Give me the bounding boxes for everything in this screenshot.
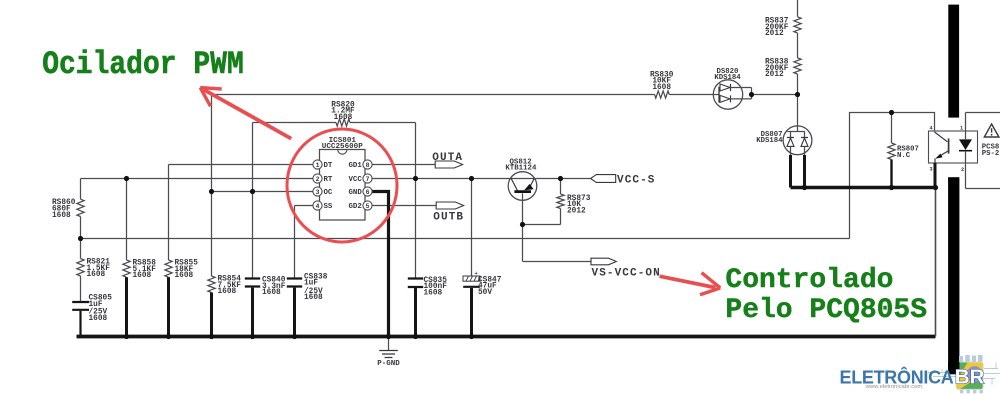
- junction dot 2: [124, 176, 129, 181]
- ground rail P-GND thick: [77, 335, 936, 339]
- resistor RS807: [888, 113, 919, 188]
- thick rail secondary: [791, 186, 936, 190]
- wire B RS820 net: [253, 122, 416, 124]
- op-amp U1 ICS801 UCC25600P PWM controller IC: [313, 137, 372, 220]
- svg-text:KTB1124: KTB1124: [505, 164, 537, 172]
- svg-text:BR: BR: [955, 366, 985, 389]
- resistor RS820: [331, 101, 355, 126]
- svg-text:PS-2: PS-2: [982, 150, 1000, 158]
- resistor RS855: [165, 260, 198, 337]
- junction dot 14: [933, 185, 938, 190]
- svg-text:1608: 1608: [424, 289, 443, 297]
- wire column x294: [294, 206, 296, 278]
- svg-text:OUTB: OUTB: [433, 211, 464, 223]
- capacitor CS838: [287, 273, 328, 336]
- resistor RS860: [52, 179, 84, 239]
- svg-text:6: 6: [366, 189, 370, 196]
- svg-text:8: 8: [366, 162, 370, 169]
- svg-text:1608: 1608: [304, 294, 323, 302]
- svg-text:1608: 1608: [262, 289, 281, 297]
- svg-text:SS: SS: [324, 203, 333, 211]
- junction dot 7: [558, 176, 563, 181]
- svg-text:KDS184: KDS184: [756, 137, 783, 145]
- node OUTB: [433, 202, 464, 223]
- wire VS long net: [81, 238, 850, 240]
- logo chip graphic: [928, 355, 1000, 393]
- junction dot 22: [469, 334, 474, 339]
- svg-text:2012: 2012: [567, 207, 586, 215]
- diode DS807 KDS184 dual: [756, 126, 812, 188]
- warning symbol: [984, 124, 999, 137]
- wire pin1 row: [169, 164, 314, 166]
- wire QS812 base / RS873 / VS-VCC-ON: [523, 179, 592, 262]
- junction dot 4: [250, 189, 255, 194]
- ground P-GND: [377, 338, 400, 368]
- junction dot 5: [413, 176, 418, 181]
- node OUTA: [432, 152, 463, 168]
- junction dot 21: [413, 334, 418, 339]
- svg-text:1608: 1608: [652, 84, 671, 92]
- resistor RS873: [557, 194, 591, 215]
- svg-text:50V: 50V: [478, 289, 492, 297]
- wire column x471: [471, 179, 473, 277]
- junction dot 20: [386, 334, 391, 339]
- svg-text:1: 1: [960, 125, 963, 131]
- svg-text:2: 2: [316, 176, 320, 183]
- red arrow to Ocilador PWM: [200, 88, 291, 139]
- logo text BR: [955, 366, 985, 389]
- svg-text:UCC25600P: UCC25600P: [322, 143, 363, 151]
- junction dot 12: [889, 110, 894, 115]
- svg-text:Controlado: Controlado: [725, 265, 893, 296]
- resistor RS838: [765, 58, 801, 79]
- svg-text:N.C: N.C: [897, 152, 911, 160]
- svg-text:VCC: VCC: [348, 176, 362, 184]
- junction dot 18: [250, 334, 255, 339]
- junction dot 6: [469, 176, 474, 181]
- wire pin7 to VCC-S: [372, 178, 591, 180]
- logo url: [865, 384, 923, 390]
- label PCS801: [982, 143, 1000, 158]
- svg-text:www.eletronicabr.com: www.eletronicabr.com: [865, 384, 923, 390]
- svg-text:3: 3: [316, 189, 320, 196]
- diode DS820 KDS184 dual: [713, 68, 751, 109]
- label Ocilador PWM: [42, 47, 244, 83]
- capacitor CS847 electrolytic: [463, 270, 502, 337]
- junction dot 15: [124, 334, 129, 339]
- node VS-VCC-ON: [591, 258, 661, 279]
- junction dot 16: [166, 334, 171, 339]
- capacitor CS840: [245, 277, 286, 337]
- diode PCS801 LED side: [959, 113, 972, 189]
- svg-text:7: 7: [366, 176, 370, 183]
- wire column x252: [252, 123, 254, 278]
- resistor RS854: [208, 276, 241, 337]
- junction dot 9: [749, 92, 754, 97]
- wire pin6 thick to ground rail: [372, 192, 389, 337]
- svg-text:1608: 1608: [52, 212, 71, 220]
- node VCC-S: [591, 175, 656, 187]
- junction dot 10: [795, 92, 800, 97]
- svg-text:GD2: GD2: [348, 203, 361, 211]
- svg-text:Pelo PCQ805S: Pelo PCQ805S: [725, 295, 927, 326]
- svg-text:4: 4: [929, 125, 932, 131]
- page bar top: [948, 5, 959, 118]
- resistor RS858: [123, 260, 156, 337]
- resistor RS830: [650, 71, 674, 98]
- wire pin5 to OUTB: [372, 205, 436, 207]
- logo text ELETRONICA: [840, 366, 954, 387]
- svg-text:GD1: GD1: [348, 162, 362, 170]
- wire optocoupler right bottom: [966, 188, 1000, 190]
- wire column x415: [415, 123, 417, 278]
- svg-text:4: 4: [316, 203, 320, 210]
- svg-text:1608: 1608: [334, 114, 353, 122]
- svg-text:RT: RT: [324, 176, 333, 184]
- wire pin4 row: [295, 205, 314, 207]
- optocoupler PCS801 phototransistor side: [929, 125, 978, 187]
- svg-text:Ocilador PWM: Ocilador PWM: [42, 47, 244, 83]
- resistor RS821: [77, 239, 110, 280]
- wire rail riser x935: [935, 188, 937, 337]
- svg-text:KDS184: KDS184: [714, 74, 741, 82]
- junction dot 1: [78, 236, 83, 241]
- transistor QS812 KTB1124: [505, 158, 537, 200]
- svg-text:1608: 1608: [89, 315, 108, 323]
- wire A top horizontal net: [212, 94, 798, 96]
- wire pin2 row: [81, 178, 314, 180]
- svg-text:DT: DT: [324, 162, 333, 170]
- junction dot 11: [802, 185, 807, 190]
- junction dot 3: [209, 189, 214, 194]
- svg-text:OUTA: OUTA: [432, 152, 463, 164]
- wire column x168: [168, 165, 170, 261]
- svg-text:2012: 2012: [765, 71, 784, 79]
- junction dot 17: [209, 334, 214, 339]
- junction dot 13: [889, 185, 894, 190]
- svg-text:2012: 2012: [765, 30, 784, 38]
- red circle around IC: [287, 129, 397, 242]
- svg-text:2: 2: [961, 167, 964, 173]
- svg-text:5: 5: [366, 203, 370, 210]
- page bar bottom: [948, 177, 959, 374]
- wire column x211: [211, 95, 213, 277]
- svg-text:3: 3: [929, 167, 932, 173]
- capacitor CS835: [408, 277, 447, 337]
- wire right riser to opto pin4: [850, 113, 935, 239]
- wire RS837/RS838 column: [797, 0, 799, 126]
- label Controlado Pelo PCQ805S: [725, 265, 927, 326]
- svg-text:VCC-S: VCC-S: [617, 175, 656, 187]
- junction dot 19: [292, 334, 297, 339]
- svg-text:1uF: 1uF: [304, 280, 318, 288]
- svg-text:GND: GND: [348, 189, 362, 197]
- svg-text:VS-VCC-ON: VS-VCC-ON: [592, 268, 661, 280]
- svg-text:1608: 1608: [133, 272, 152, 280]
- svg-text:1608: 1608: [175, 272, 194, 280]
- svg-text:1608: 1608: [87, 271, 106, 279]
- svg-text:1: 1: [316, 162, 320, 169]
- red arrow to Controlado: [660, 273, 721, 295]
- svg-text:1608: 1608: [218, 288, 237, 296]
- wire pin8 to OUTA: [372, 164, 435, 166]
- svg-text:P-GND: P-GND: [377, 360, 400, 368]
- wire column x126: [126, 179, 128, 261]
- junction dot 8: [520, 222, 525, 227]
- wire optocoupler right top: [966, 112, 1000, 114]
- page bar overlay on chip: [948, 362, 959, 374]
- capacitor CS805: [72, 276, 112, 337]
- svg-text:OC: OC: [324, 189, 333, 197]
- wire pin3 row: [212, 191, 314, 193]
- resistor RS837: [765, 17, 801, 38]
